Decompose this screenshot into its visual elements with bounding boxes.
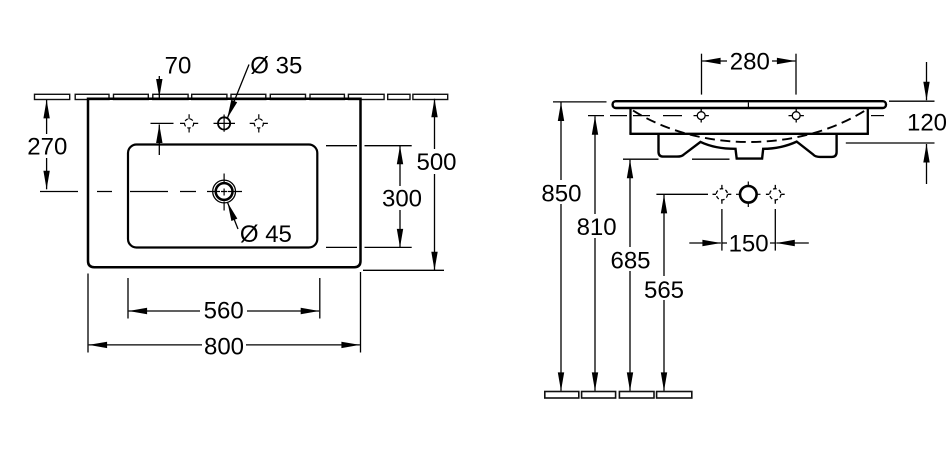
drain centerline horizontal [40, 191, 196, 193]
faucet hole right (optional, dashed) [250, 114, 268, 132]
basin bowl inner outline [128, 145, 317, 248]
faucet hole center (O35) [214, 115, 236, 132]
slab center tick [747, 103, 749, 108]
dim 70 tick at hole line [151, 122, 174, 124]
svg-text:300: 300 [382, 185, 422, 212]
countertop slab [613, 101, 886, 108]
hole centerline dashed (810 reference) [588, 115, 682, 117]
faucet hole left (optional, dashed) [180, 114, 198, 132]
mounting hole center (bold) [736, 182, 761, 208]
front faucet hole left [694, 109, 709, 123]
dim 850 line [560, 103, 562, 391]
dim 150 extension left [721, 209, 723, 251]
dim 150 extension right [774, 209, 776, 251]
dim 685 extension [623, 158, 659, 160]
dim 810 line [594, 116, 596, 391]
drain hole circle outer [213, 180, 236, 203]
dim 150 line [722, 242, 775, 244]
mounting hole right (dashed) [766, 185, 785, 204]
dim 560 extension right [319, 278, 321, 319]
dim 565 line [663, 195, 665, 391]
front faucet hole right [789, 109, 804, 123]
underside profile with brackets and drain boss [659, 134, 837, 159]
dim 565 extension [656, 193, 708, 195]
dim 300 line [399, 146, 401, 248]
body bottom edge [629, 133, 869, 135]
mounting hole left (dashed) [713, 185, 732, 204]
leader O45 [228, 203, 238, 229]
svg-text:560: 560 [204, 297, 244, 324]
body right edge [867, 108, 869, 134]
bowl hidden arc (dashed) [633, 111, 865, 143]
dim 150 left pointer [689, 242, 721, 244]
dim 560 line [129, 310, 320, 312]
dim 150 right pointer [776, 242, 809, 244]
drain hole circle inner [216, 183, 233, 200]
dim 120 bottom pointer [926, 144, 928, 184]
dim 800 line [89, 344, 360, 346]
dim 500 line [434, 99, 436, 270]
svg-text:800: 800 [204, 333, 244, 360]
dim 685 line [629, 160, 631, 391]
drain boss lower reference line [692, 158, 730, 160]
dim 280 extension left [701, 54, 703, 95]
dim 120 top pointer [926, 62, 928, 100]
svg-text:150: 150 [729, 230, 769, 257]
dim 280 extension right [795, 54, 797, 95]
svg-text:70: 70 [165, 53, 192, 80]
dim 300 bottom extension [326, 246, 412, 248]
dim 270 line [46, 100, 48, 189]
basin outer outline [88, 99, 361, 267]
svg-text:810: 810 [577, 214, 617, 241]
dim 280 line [702, 60, 795, 62]
dim 70 lower pointer [158, 125, 160, 156]
leader O35 [227, 65, 249, 119]
svg-text:Ø 35: Ø 35 [250, 53, 302, 80]
label backgrounds [26, 134, 68, 158]
svg-text:565: 565 [644, 277, 684, 304]
dim 300 top extension [326, 145, 412, 147]
body left edge [629, 108, 631, 134]
dim 800 extension left [87, 274, 89, 353]
wall tile strip (top) [35, 94, 448, 99]
drain centerline vertical [221, 174, 227, 211]
drain crosshair horizontal [207, 191, 242, 193]
svg-text:500: 500 [416, 149, 456, 176]
svg-text:120: 120 [907, 110, 947, 137]
floor strip [545, 392, 692, 399]
svg-text:Ø 45: Ø 45 [240, 221, 292, 248]
dim 120 top extension [889, 100, 935, 102]
dim 560 extension left [127, 278, 129, 319]
svg-text:685: 685 [610, 248, 650, 275]
svg-text:270: 270 [27, 133, 67, 160]
dim 120 bottom extension [846, 142, 935, 144]
dim 850 top extension [553, 101, 607, 103]
dim 70 upper pointer [158, 76, 160, 98]
dim 500 bottom extension [363, 269, 444, 271]
svg-text:280: 280 [730, 49, 770, 76]
svg-text:850: 850 [541, 181, 581, 208]
dim 800 extension right [360, 272, 362, 353]
